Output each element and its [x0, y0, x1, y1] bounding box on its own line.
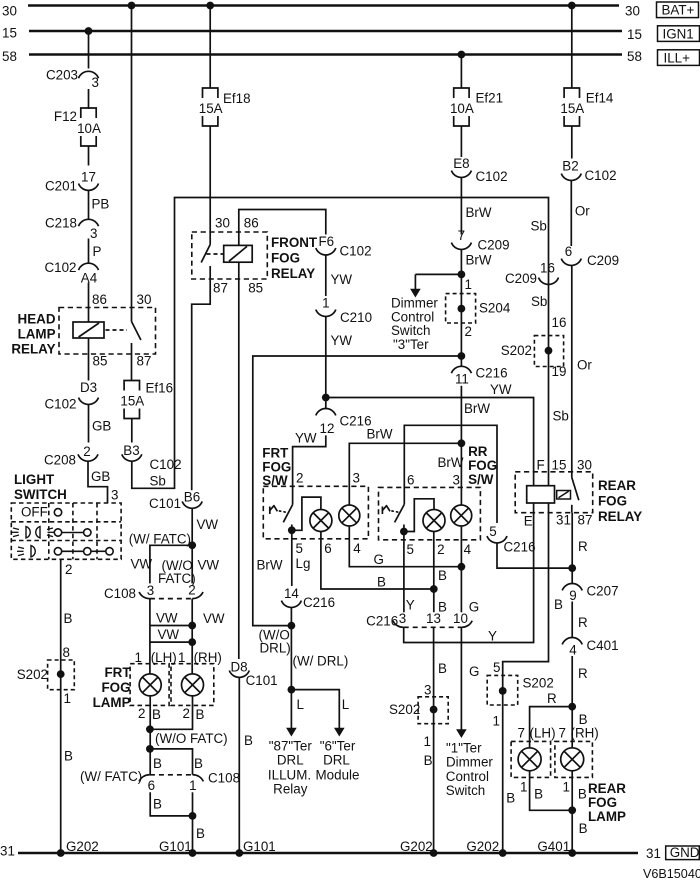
- icon head lamp: [31, 546, 35, 558]
- svg-text:S204: S204: [479, 301, 511, 316]
- svg-text:Module: Module: [316, 768, 360, 783]
- svg-text:16: 16: [540, 261, 555, 276]
- svg-text:10: 10: [453, 611, 468, 626]
- ground G202 (B wire): [430, 849, 438, 857]
- svg-text:B: B: [438, 568, 447, 583]
- svg-text:4: 4: [353, 541, 361, 556]
- svg-text:(RH): (RH): [571, 726, 599, 741]
- svg-text:LAMP: LAMP: [18, 327, 56, 342]
- svg-text:R: R: [578, 615, 588, 630]
- svg-text:C216: C216: [476, 366, 508, 381]
- svg-text:SWITCH: SWITCH: [14, 487, 67, 502]
- svg-text:C201: C201: [45, 179, 77, 194]
- fuse Ef18 15A: [203, 88, 218, 98]
- lamp REAR FOG LAMP LH box: [511, 741, 550, 777]
- lamp indicator (RR fog switch): [423, 510, 445, 532]
- svg-text:C102: C102: [150, 457, 182, 472]
- lamp FRT FOG LAMP LH box: [130, 664, 169, 706]
- wire F6 to C210, YW: [325, 255, 327, 296]
- svg-text:BAT+: BAT+: [662, 3, 695, 18]
- wire F12 to C201: [88, 146, 90, 166]
- svg-text:REAR: REAR: [588, 781, 626, 796]
- svg-text:15A: 15A: [560, 101, 584, 116]
- svg-text:C102: C102: [585, 168, 617, 183]
- arrow 87Ter DRL illum relay: [290, 728, 292, 729]
- wire C209-6 to rear fog relay 30, Or: [571, 266, 573, 478]
- svg-text:7: 7: [458, 228, 465, 243]
- svg-text:Control: Control: [446, 769, 489, 784]
- svg-text:C102: C102: [476, 169, 508, 184]
- node GND: [666, 846, 700, 860]
- svg-text:B: B: [64, 611, 73, 626]
- junction DRL branch: [288, 686, 296, 694]
- connector C102 pin A4: [79, 263, 99, 270]
- relay HEAD LAMP RELAY box: [59, 308, 156, 355]
- svg-text:B3: B3: [123, 443, 139, 458]
- relay module block (rear fog relay): [527, 486, 555, 503]
- svg-text:B: B: [244, 733, 253, 748]
- svg-text:3: 3: [92, 75, 99, 90]
- svg-text:"6"Ter: "6"Ter: [320, 739, 356, 754]
- connector C218 pin 3: [79, 219, 99, 226]
- junction W/FATC branch: [188, 541, 196, 549]
- svg-text:10A: 10A: [450, 101, 474, 116]
- relay coil symbol (rear fog relay): [557, 491, 571, 500]
- svg-text:2: 2: [188, 583, 195, 598]
- wire C216-12 to front fog switch pin 2: [293, 435, 326, 504]
- wire Ef21 to E8: [460, 126, 462, 157]
- wire B2 to C209-6, Or: [570, 181, 572, 246]
- svg-text:B: B: [377, 575, 386, 590]
- lamp REAR FOG LAMP RH: [561, 748, 584, 771]
- lamp FRT FOG LAMP RH box: [171, 664, 214, 706]
- wire bus 15 (IGN1): [29, 30, 622, 33]
- arrow dimmer control switch: [414, 274, 416, 289]
- svg-text:FRT: FRT: [262, 446, 289, 461]
- svg-text:DRL: DRL: [277, 753, 304, 768]
- relay link dashed: [106, 329, 128, 331]
- svg-text:Sb: Sb: [531, 219, 547, 234]
- wire YW to rear fog relay F: [326, 398, 534, 486]
- svg-text:VW: VW: [198, 558, 220, 573]
- wire rung to C108 pin 1: [150, 749, 193, 775]
- ground G101 (front fog lamps): [189, 849, 197, 857]
- ground G401: [568, 849, 576, 857]
- svg-text:1: 1: [424, 734, 431, 749]
- wire D3 to C208, GB: [88, 405, 90, 443]
- junction on bus 30 for head lamp relay: [128, 2, 136, 10]
- wire C210 to C216-12, YW: [325, 317, 327, 409]
- connector C108 pins 3 and 2: [139, 592, 150, 599]
- svg-text:3: 3: [353, 471, 360, 486]
- svg-text:C101: C101: [149, 496, 181, 511]
- svg-text:30: 30: [2, 4, 17, 19]
- connector C216 pin 12: [316, 409, 336, 416]
- svg-text:1: 1: [322, 296, 329, 311]
- light switch position contacts: [54, 509, 61, 516]
- svg-text:6: 6: [148, 778, 155, 793]
- svg-text:VW: VW: [158, 627, 180, 642]
- wire coil 85 down: [88, 338, 90, 381]
- wire C207 to C401, R: [571, 602, 573, 638]
- svg-text:87: 87: [578, 513, 593, 528]
- svg-text:F12: F12: [54, 109, 77, 124]
- svg-text:S202: S202: [523, 676, 554, 691]
- ground G202 (light switch): [57, 849, 65, 857]
- svg-text:2: 2: [465, 324, 472, 339]
- svg-text:R: R: [547, 691, 557, 706]
- svg-text:9: 9: [569, 588, 576, 603]
- relay switch (front fog relay): [201, 245, 210, 263]
- svg-text:6: 6: [407, 473, 414, 488]
- svg-text:PB: PB: [92, 197, 110, 212]
- ground G202 (rear relay): [499, 849, 507, 857]
- svg-text:B: B: [554, 597, 563, 612]
- svg-text:(LH): (LH): [151, 650, 177, 665]
- svg-text:C210: C210: [340, 310, 372, 325]
- junction on bus 30 for Ef14: [568, 2, 576, 10]
- svg-text:2: 2: [83, 444, 90, 459]
- svg-text:C209: C209: [587, 253, 619, 268]
- svg-text:GB: GB: [91, 469, 110, 484]
- svg-text:Y: Y: [406, 598, 415, 613]
- svg-text:B6: B6: [184, 490, 200, 505]
- svg-text:30: 30: [625, 4, 640, 19]
- svg-text:YW: YW: [490, 382, 512, 397]
- wire VW rung 1: [150, 625, 192, 627]
- svg-text:FOG: FOG: [271, 251, 300, 266]
- lamp illumination (FRT fog switch): [339, 505, 360, 526]
- junction dimmer branch: [458, 271, 466, 279]
- connector C216 pins 3 13 10: [393, 621, 404, 628]
- svg-text:Sb: Sb: [553, 409, 569, 424]
- junction indicator branch (RR): [400, 528, 408, 536]
- svg-text:"87"Ter: "87"Ter: [269, 739, 313, 754]
- wire B3 Sb to rear fog relay pin 15: [132, 198, 549, 489]
- svg-text:7: 7: [518, 726, 525, 741]
- svg-text:Sb: Sb: [531, 294, 547, 309]
- svg-text:FOG: FOG: [101, 680, 130, 695]
- svg-text:B: B: [579, 821, 588, 836]
- svg-text:RELAY: RELAY: [11, 342, 55, 357]
- wire front fog relay 85 to D8: [238, 262, 240, 659]
- wire Ef16 to B3: [131, 419, 133, 443]
- svg-text:LAMP: LAMP: [93, 695, 131, 710]
- wire bus 30 (BAT+): [28, 4, 619, 7]
- svg-text:Dimmer: Dimmer: [446, 755, 493, 770]
- svg-text:C209: C209: [478, 238, 510, 253]
- svg-text:OFF: OFF: [21, 505, 48, 520]
- svg-text:11: 11: [455, 372, 469, 387]
- node ILL+: [658, 50, 700, 66]
- svg-text:FRONT: FRONT: [271, 235, 318, 250]
- wire C218 to C102, P: [88, 239, 90, 263]
- svg-text:31: 31: [556, 513, 571, 528]
- svg-text:G202: G202: [66, 839, 99, 854]
- svg-text:G: G: [469, 600, 479, 615]
- wire C108-3 down: [149, 599, 151, 664]
- svg-text:BrW: BrW: [367, 427, 393, 442]
- svg-text:B: B: [578, 787, 587, 802]
- wire C201 to C218, PB: [88, 191, 90, 219]
- lamp indicator (FRT fog switch): [310, 510, 332, 532]
- wire C401 to rear fog lamps, R: [571, 656, 573, 748]
- wire BrW rung to FRT fog switch pin 3: [349, 443, 461, 505]
- wire C108-6 to join: [150, 792, 192, 816]
- svg-text:30: 30: [215, 216, 230, 231]
- wire coil 86 to F6 C102: [239, 210, 326, 246]
- svg-text:VW: VW: [131, 557, 153, 572]
- svg-text:13: 13: [426, 611, 441, 626]
- svg-text:B: B: [196, 826, 205, 841]
- svg-text:C216: C216: [366, 614, 398, 629]
- svg-text:C216: C216: [504, 540, 536, 555]
- relay coil (head lamp relay): [73, 322, 104, 338]
- switch actuator (RR fog): [381, 507, 383, 515]
- junction on bus 30 for Ef18: [206, 2, 214, 10]
- svg-text:(W/O FATC): (W/O FATC): [155, 731, 228, 746]
- connector C108 pins 6 and 1: [139, 775, 150, 782]
- svg-text:E8: E8: [453, 156, 469, 171]
- svg-text:REAR: REAR: [598, 478, 636, 493]
- svg-text:S202: S202: [389, 702, 420, 717]
- svg-text:B2: B2: [562, 159, 578, 174]
- svg-text:8: 8: [63, 645, 70, 660]
- node BAT+: [657, 2, 699, 18]
- svg-text:12: 12: [320, 421, 335, 436]
- svg-text:(RH): (RH): [194, 650, 222, 665]
- svg-text:C108: C108: [208, 771, 240, 786]
- svg-text:Ef16: Ef16: [146, 381, 174, 396]
- svg-text:2: 2: [296, 471, 303, 486]
- svg-text:Y: Y: [488, 629, 497, 644]
- arrow 6Ter DRL module: [338, 728, 340, 729]
- wire branch to 6Ter DRL module: [291, 690, 339, 728]
- wire bus58 to Ef21: [460, 55, 462, 89]
- svg-text:85: 85: [93, 354, 108, 369]
- svg-text:BrW: BrW: [466, 205, 492, 220]
- svg-text:5: 5: [407, 542, 414, 557]
- wire C102 to head lamp relay coil 86: [88, 283, 90, 323]
- wire RR pin5 to C216-3, Y: [403, 532, 405, 613]
- wire front fog relay 87 to C101 B6: [192, 279, 211, 490]
- wire RR pin4 / G to C216-10: [460, 526, 462, 612]
- svg-text:3: 3: [399, 611, 406, 626]
- svg-text:19: 19: [552, 364, 567, 379]
- svg-text:HEAD: HEAD: [18, 312, 56, 327]
- svg-text:L: L: [342, 697, 349, 712]
- svg-text:86: 86: [92, 292, 107, 307]
- wire B rung (pin6 FRT to pin2 RR): [321, 532, 434, 590]
- svg-text:VW: VW: [156, 611, 178, 626]
- svg-text:3: 3: [453, 473, 460, 488]
- svg-text:86: 86: [244, 216, 259, 231]
- junction rear lamp split: [568, 703, 576, 711]
- wire RH lamp to rung: [150, 696, 193, 729]
- svg-text:YW: YW: [295, 431, 317, 446]
- wire bus30 to Ef18: [209, 6, 211, 89]
- svg-text:D3: D3: [80, 380, 97, 395]
- junction on bus 58 for Ef21: [458, 51, 466, 59]
- svg-text:C102: C102: [44, 260, 76, 275]
- svg-text:31: 31: [646, 846, 661, 861]
- lamp FRT FOG LAMP LH: [139, 674, 161, 696]
- svg-text:S202: S202: [17, 667, 48, 682]
- fuse Ef14 15A: [564, 88, 579, 98]
- wire C216-10 to 1Ter dimmer, G: [460, 627, 462, 730]
- svg-text:C209: C209: [505, 271, 537, 286]
- lamp REAR FOG LAMP LH: [518, 748, 541, 771]
- svg-text:14: 14: [284, 586, 299, 601]
- svg-text:(LH): (LH): [530, 726, 556, 741]
- svg-text:58: 58: [627, 49, 642, 64]
- svg-text:58: 58: [2, 49, 17, 64]
- svg-text:10A: 10A: [77, 121, 101, 136]
- svg-text:RELAY: RELAY: [271, 266, 315, 281]
- svg-text:17: 17: [81, 170, 96, 185]
- svg-text:FRT: FRT: [104, 665, 131, 680]
- junction BrW rung: [458, 439, 466, 447]
- svg-text:6: 6: [324, 541, 331, 556]
- wire C216-5 to R wire: [497, 543, 572, 568]
- wire relay 87 to C207-9, R: [571, 513, 573, 584]
- svg-text:RR: RR: [468, 444, 488, 459]
- svg-text:15: 15: [627, 27, 642, 42]
- junction indicator branch (FRT): [288, 526, 296, 534]
- wire C216-11 to RR fog switch pin 3, BrW: [460, 386, 462, 505]
- wire G rung (pin4 FRT to pin4 RR): [349, 526, 461, 567]
- svg-text:G202: G202: [466, 839, 499, 854]
- wire light switch pin 2 to G202: [60, 559, 62, 853]
- svg-text:ILLUM.: ILLUM.: [268, 768, 311, 783]
- svg-text:C218: C218: [45, 216, 77, 231]
- svg-text:Ef21: Ef21: [476, 91, 504, 106]
- svg-text:4: 4: [464, 542, 472, 557]
- icon parking lamps: [26, 527, 30, 539]
- splice S202 on light switch ground wire: [48, 660, 75, 690]
- svg-text:R: R: [578, 539, 588, 554]
- svg-text:C203: C203: [46, 68, 78, 83]
- svg-text:BrW: BrW: [464, 401, 490, 416]
- wire branch to C108 pin 3: [150, 545, 192, 583]
- svg-text:V6B15040: V6B15040: [643, 867, 700, 880]
- svg-text:S202: S202: [501, 343, 532, 358]
- splice S202 (rear fog relay ground): [487, 675, 518, 705]
- svg-text:DRL): DRL): [260, 641, 291, 656]
- svg-text:"1"Ter: "1"Ter: [446, 741, 482, 756]
- svg-text:B: B: [424, 753, 433, 768]
- wire RH rear lamp to G401: [571, 771, 573, 853]
- svg-text:DRL: DRL: [323, 753, 350, 768]
- svg-text:BrW: BrW: [438, 455, 464, 470]
- svg-text:C207: C207: [587, 584, 619, 599]
- svg-text:Or: Or: [575, 204, 590, 219]
- svg-text:87: 87: [213, 281, 228, 296]
- svg-text:C101: C101: [246, 673, 278, 688]
- connector C401 pin 4: [562, 638, 582, 645]
- wire bus30 to Ef14: [571, 6, 573, 89]
- wire bus 31 (GND): [18, 852, 638, 855]
- svg-text:C102: C102: [44, 397, 76, 412]
- svg-text:2: 2: [65, 562, 72, 577]
- svg-text:1: 1: [189, 778, 196, 793]
- fuse Ef21 10A: [454, 88, 469, 98]
- wire C209-7 down BrW: [460, 250, 462, 367]
- svg-text:C102: C102: [340, 244, 372, 259]
- svg-text:1: 1: [64, 691, 71, 706]
- svg-text:LIGHT: LIGHT: [14, 472, 55, 487]
- svg-text:B: B: [506, 791, 515, 806]
- svg-text:2: 2: [138, 706, 145, 721]
- svg-text:B: B: [153, 797, 162, 812]
- connector C207 pin 9: [562, 584, 582, 591]
- wire to indicator lamp (RR): [404, 499, 434, 532]
- svg-text:G101: G101: [243, 839, 276, 854]
- wire C203 to F12: [88, 89, 90, 109]
- svg-text:15: 15: [552, 458, 567, 473]
- wire VW rung 2: [150, 641, 192, 643]
- svg-text:1: 1: [493, 714, 500, 729]
- svg-text:B: B: [152, 707, 161, 722]
- svg-text:GB: GB: [92, 419, 111, 434]
- svg-text:3: 3: [90, 226, 97, 241]
- svg-text:1: 1: [563, 780, 570, 795]
- node IGN1: [658, 26, 700, 42]
- svg-text:FOG: FOG: [588, 795, 617, 810]
- svg-text:G: G: [469, 664, 479, 679]
- svg-text:ILL+: ILL+: [664, 50, 691, 65]
- svg-text:E: E: [524, 514, 533, 529]
- svg-text:C208: C208: [44, 453, 76, 468]
- svg-text:2: 2: [183, 706, 190, 721]
- svg-text:Lg: Lg: [296, 556, 311, 571]
- lamp REAR FOG LAMP RH box: [555, 741, 593, 777]
- svg-text:Ef14: Ef14: [586, 91, 614, 106]
- svg-text:6: 6: [565, 244, 572, 259]
- svg-text:FOG: FOG: [468, 458, 497, 473]
- junction R wire / C216-5 join: [568, 564, 576, 572]
- wire C108-2 down: [191, 599, 193, 664]
- junction on bus 15 for C203: [85, 27, 93, 35]
- ground G101 (relay 85): [235, 849, 243, 857]
- svg-text:Relay: Relay: [273, 782, 308, 797]
- svg-text:RELAY: RELAY: [598, 509, 642, 524]
- wire LH lamp down to C108-6: [149, 696, 151, 775]
- svg-text:G: G: [374, 552, 384, 567]
- svg-text:YW: YW: [331, 272, 353, 287]
- wire C216-14 down: [290, 608, 292, 728]
- svg-text:3: 3: [147, 583, 154, 598]
- svg-text:IGN1: IGN1: [663, 26, 694, 41]
- svg-text:YW: YW: [331, 333, 353, 348]
- wire BrW S204 to 14-C216 join: [253, 356, 462, 626]
- svg-text:B: B: [194, 756, 203, 771]
- relay FRONT FOG RELAY box: [192, 232, 267, 279]
- svg-text:BrW: BrW: [466, 253, 492, 268]
- svg-text:F6: F6: [318, 234, 334, 249]
- wire into LH lamp: [149, 664, 151, 674]
- wire Ef14 to B2: [571, 126, 573, 159]
- relay REAR FOG RELAY box: [515, 472, 593, 513]
- wire Ef18 to front fog relay 30: [209, 126, 211, 245]
- svg-text:L: L: [297, 697, 304, 712]
- wire C108-1 to G101: [192, 792, 194, 853]
- relay coil (front fog relay): [224, 245, 253, 262]
- svg-text:B: B: [64, 749, 73, 764]
- svg-text:Sb: Sb: [150, 474, 166, 489]
- connector C203 pin 3: [79, 71, 99, 78]
- wire to LH rear lamp, R: [530, 707, 573, 748]
